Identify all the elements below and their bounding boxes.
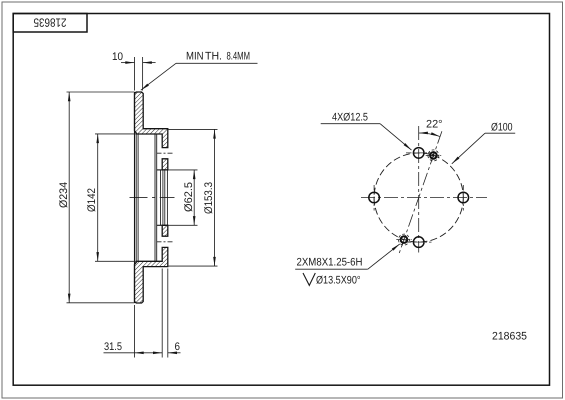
- dim D142: dimension line: [97, 134, 99, 261]
- bore chamfer edge c: [164, 170, 166, 225]
- bolt hole centerline (bottom): [157, 241, 174, 243]
- svg-text:Ø153.3: Ø153.3: [203, 182, 215, 214]
- svg-text:31.5: 31.5: [104, 341, 122, 353]
- svg-text:MINTH.8.4MM: MINTH.8.4MM: [186, 51, 250, 63]
- dim D142: extension lines: [95, 133, 138, 135]
- section centerline: [130, 197, 175, 199]
- hub flange section upper piece (hatched): [162, 159, 168, 170]
- dim 10: extension lines: [134, 57, 136, 91]
- bore top edge: [157, 169, 168, 171]
- svg-text:218635: 218635: [33, 16, 66, 30]
- hub flange section lower piece (hatched): [162, 225, 168, 236]
- dim D234: extension lines: [67, 91, 135, 93]
- bolt hole bottom: [413, 237, 424, 248]
- bore bottom edge: [157, 224, 168, 226]
- bolt circle D100 (dashed): [374, 153, 463, 242]
- hat interior edge b: [137, 134, 139, 261]
- title box top-left: [13, 14, 87, 33]
- bolt hole left: [369, 192, 380, 203]
- bolt hole ticks: [406, 152, 432, 154]
- dim 10: dimension line with arrows: [121, 62, 135, 64]
- leader 4XD12.5: leader line: [380, 124, 411, 150]
- M8 tapped hole bottom-left: minor circle: [401, 236, 408, 243]
- friction ring + hat band section (bottom half, hatched): [135, 247, 168, 303]
- leader 2XM8X1.25-6H: leader line: [368, 244, 400, 269]
- leader 2XM8X1.25-6H: underline: [295, 268, 368, 270]
- M8 tapped hole top-right: thread circle (dashed): [428, 150, 439, 161]
- countersink symbol: [303, 273, 315, 285]
- leader D100: leader line: [452, 133, 485, 164]
- svg-text:Ø142: Ø142: [86, 188, 98, 212]
- dim D153.3: extension lines: [169, 128, 218, 130]
- svg-text:4XØ12.5: 4XØ12.5: [332, 112, 368, 124]
- M8 tapped hole bottom-left: thread circle (dashed): [398, 234, 409, 245]
- svg-text:2XM8X1.25-6H: 2XM8X1.25-6H: [297, 257, 363, 269]
- bore chamfer edge b: [162, 170, 164, 225]
- M8 holes axis line (22 deg): [399, 131, 442, 254]
- dim D234: dimension line: [68, 92, 70, 303]
- vertical centerline: [418, 126, 420, 253]
- hub boss edge b: [156, 134, 158, 261]
- dim D62.5: extension lines: [168, 169, 198, 171]
- bolt hole right: [458, 192, 469, 203]
- leader D100: underline: [485, 132, 515, 134]
- leader 4XD12.5: underline: [321, 123, 380, 125]
- dim D62.5: dimension line: [193, 170, 195, 225]
- horizontal centerline: [361, 197, 487, 199]
- svg-text:6: 6: [175, 341, 181, 353]
- bolt hole top: [413, 148, 424, 159]
- disc left face line: [134, 92, 136, 303]
- friction ring + hat band section (top half, hatched): [135, 92, 168, 148]
- dim 31.5: extension lines: [134, 305, 136, 358]
- bore chamfer edge a: [160, 170, 162, 225]
- svg-text:Ø13.5X90°: Ø13.5X90°: [316, 275, 361, 287]
- dim 22deg: arc with arrows: [419, 133, 440, 137]
- M8 hole ticks: [426, 154, 442, 156]
- svg-text:Ø62.5: Ø62.5: [183, 182, 195, 212]
- M8 tapped hole top-right: minor circle: [430, 152, 437, 159]
- dim 6: arrow and tail: [168, 352, 181, 354]
- M8 tapped hole top-right: inner mark: [431, 153, 435, 158]
- svg-text:10: 10: [112, 51, 123, 63]
- svg-text:22°: 22°: [426, 119, 443, 131]
- hub boss edge a: [154, 134, 156, 261]
- hat interior edge a: [135, 134, 137, 261]
- dim D153.3: dimension line: [214, 129, 216, 266]
- bolt hole centerline (top): [157, 152, 174, 154]
- svg-text:Ø234: Ø234: [58, 182, 70, 208]
- dim 31.5: dimension line with arrows: [104, 352, 135, 354]
- svg-text:Ø100: Ø100: [491, 122, 513, 134]
- bore far edge: [166, 170, 168, 225]
- svg-text:218635: 218635: [492, 331, 527, 343]
